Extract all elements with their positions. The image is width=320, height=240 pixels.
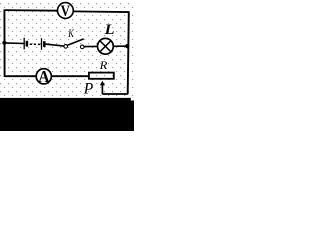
svg-text:R: R bbox=[99, 58, 108, 72]
lamp L circle bbox=[98, 38, 114, 54]
paper background with halftone dots bbox=[0, 0, 134, 98]
white notch top-right of bar bbox=[131, 98, 134, 101]
lamp L cross bbox=[100, 41, 111, 52]
battery cell 2 long plate bbox=[41, 38, 43, 50]
switch K blade bbox=[67, 39, 84, 46]
rheostat slider arrow shaft bbox=[101, 85, 103, 95]
wire: dashed link between cells bbox=[30, 43, 41, 45]
black censor bar at bottom bbox=[0, 98, 134, 131]
wire: top rail right of voltmeter bbox=[73, 10, 129, 13]
rheostat slider arrow head bbox=[100, 81, 105, 86]
svg-text:V: V bbox=[61, 3, 71, 20]
rheostat R body bbox=[89, 73, 114, 79]
wire: left vertical rail bbox=[3, 10, 5, 77]
wire: battery branch from left rail bbox=[4, 42, 24, 45]
wire: bottom rail to ammeter bbox=[5, 75, 37, 77]
wire: lamp to right rail bbox=[113, 45, 128, 47]
wire: top rail left of voltmeter bbox=[4, 9, 58, 12]
node: left junction dot bbox=[2, 41, 6, 45]
wire: battery to switch bbox=[46, 44, 64, 46]
wire: slider to right rail bbox=[102, 93, 127, 95]
wire: ammeter to rheostat bbox=[52, 75, 89, 77]
svg-text:P: P bbox=[83, 81, 94, 98]
node: right junction dot bbox=[125, 44, 129, 48]
battery cell 1 long plate bbox=[23, 38, 25, 50]
ammeter A1 bbox=[36, 68, 51, 85]
svg-text:L: L bbox=[104, 22, 115, 38]
wire: right vertical rail bbox=[128, 11, 129, 94]
wire: switch to lamp bbox=[84, 45, 98, 47]
svg-text:A: A bbox=[38, 68, 50, 85]
battery cell 2 short plate bbox=[43, 41, 46, 47]
voltmeter U1 bbox=[58, 3, 74, 21]
switch K right contact bbox=[80, 45, 84, 49]
battery cell 1 short plate bbox=[26, 41, 29, 47]
svg-text:K: K bbox=[67, 28, 74, 41]
switch K hinge contact bbox=[64, 45, 68, 49]
